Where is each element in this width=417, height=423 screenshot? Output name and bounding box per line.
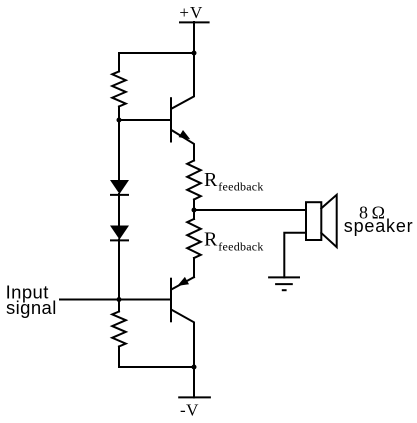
+V terminal bar xyxy=(180,21,209,23)
svg-text:-V: -V xyxy=(180,400,199,419)
wire top rail horizontal xyxy=(119,52,194,54)
wire bottom rail horizontal xyxy=(119,366,194,368)
svg-text:signal: signal xyxy=(6,297,57,318)
wire between diodes xyxy=(118,194,120,226)
ground xyxy=(269,276,299,278)
node Q1 base junction dot xyxy=(117,118,122,123)
wire Rfb1 to output node xyxy=(193,200,195,211)
wire base node to Q1 base xyxy=(119,119,170,121)
node input junction dot xyxy=(117,297,122,302)
wire speaker return xyxy=(284,233,306,278)
wire diode column top xyxy=(118,120,120,180)
transistor Q1 collector lead xyxy=(172,53,194,108)
svg-text:+V: +V xyxy=(179,3,203,22)
svg-text:feedback: feedback xyxy=(218,179,263,193)
svg-text:speaker: speaker xyxy=(344,216,414,236)
transistor Q2 collector lead xyxy=(172,310,194,367)
speaker cone xyxy=(321,195,336,247)
svg-text:feedback: feedback xyxy=(218,239,263,253)
wire +V bar to top rail xyxy=(193,22,195,53)
wire input node to R2 xyxy=(118,300,120,312)
diode D2 xyxy=(110,226,129,240)
node output junction dot xyxy=(192,208,197,213)
transistor Q1 (NPN) base bar xyxy=(170,98,172,141)
speaker body xyxy=(306,202,321,240)
svg-text:R: R xyxy=(204,169,218,191)
wire diode column bottom xyxy=(118,240,120,300)
resistor Rfeedback lower xyxy=(187,219,201,258)
resistor Rfeedback upper xyxy=(187,161,201,200)
wire bottom rail to -V bar xyxy=(193,367,195,397)
-V terminal bar xyxy=(179,396,210,398)
wire output to speaker xyxy=(194,209,306,211)
resistor R2 (lower bias resistor) xyxy=(112,312,126,347)
node bottom-rail junction dot xyxy=(192,365,197,370)
transistor Q1 emitter arrow xyxy=(179,130,191,139)
diode D1 xyxy=(110,180,129,194)
transistor Q2 (PNP) base bar xyxy=(170,279,172,322)
wire input signal xyxy=(60,299,170,301)
wire top rail down to R1 xyxy=(118,53,120,71)
transistor Q2 emitter lead xyxy=(172,277,194,289)
wire R1 bottom to base node xyxy=(118,107,120,121)
transistor Q2 emitter arrow xyxy=(177,277,189,286)
wire R2 bottom to bottom rail xyxy=(118,347,120,368)
wire output node to Rfb2 xyxy=(193,210,195,219)
node top-rail junction dot xyxy=(192,51,197,56)
svg-text:R: R xyxy=(204,229,218,251)
transistor Q1 emitter lead xyxy=(172,130,194,160)
wire Rfb2 to Q2 emitter xyxy=(193,258,195,277)
resistor R1 (upper bias resistor) xyxy=(112,71,126,106)
